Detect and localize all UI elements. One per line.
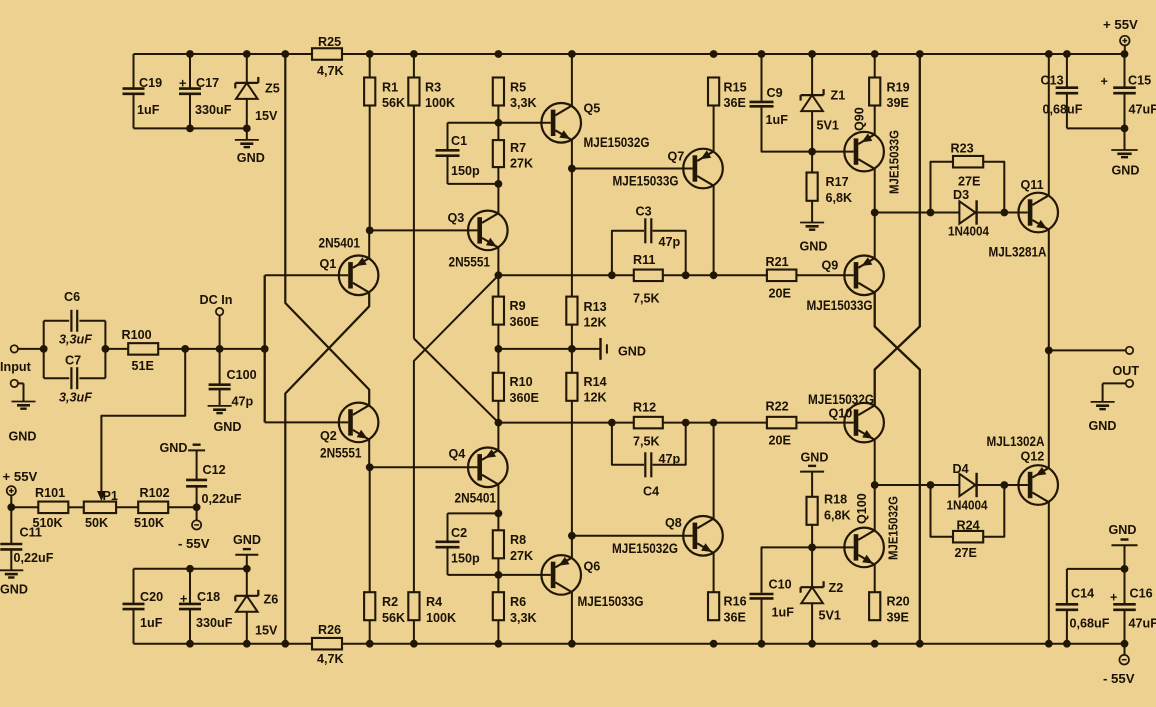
svg-text:Z6: Z6 — [264, 593, 279, 607]
wire C2 top branch — [448, 512, 499, 514]
svg-text:C10: C10 — [769, 578, 792, 592]
resistor R20 — [874, 565, 876, 592]
transistor Q4 2N5401 — [468, 448, 508, 488]
svg-text:27E: 27E — [955, 546, 977, 560]
transistor Q8 MJE15032G — [683, 516, 723, 556]
terminal -55V pot supply — [196, 507, 198, 520]
resistor R22 — [767, 417, 797, 429]
wire Q3 emitter down — [497, 248, 499, 276]
node top rail / C15 — [1121, 50, 1129, 58]
resistor R11 — [634, 270, 663, 282]
svg-text:1N4004: 1N4004 — [947, 498, 989, 513]
svg-text:GND: GND — [237, 151, 265, 165]
capacitor C13 — [1066, 54, 1068, 87]
node C4 right — [682, 419, 690, 427]
wire Q7 base — [572, 168, 693, 170]
svg-text:C100: C100 — [227, 368, 257, 382]
capacitor C10 — [761, 600, 763, 644]
svg-text:2N5551: 2N5551 — [320, 446, 362, 461]
capacitor C15 — [1124, 54, 1126, 87]
svg-text:Z2: Z2 — [829, 581, 844, 595]
node D4 line left — [871, 481, 879, 489]
svg-text:100K: 100K — [426, 611, 456, 625]
svg-text:R7: R7 — [510, 141, 526, 155]
svg-text:R11: R11 — [633, 253, 655, 267]
svg-text:R9: R9 — [510, 299, 526, 313]
svg-text:MJE15033G: MJE15033G — [578, 594, 644, 609]
transistor Q12 MJL1302A — [1018, 465, 1058, 505]
svg-text:C16: C16 — [1130, 587, 1153, 601]
node R23 right — [1000, 209, 1008, 217]
svg-text:MJL3281A: MJL3281A — [989, 245, 1047, 260]
svg-text:+ 55V: + 55V — [1103, 17, 1138, 32]
svg-text:R8: R8 — [510, 533, 526, 547]
svg-text:12K: 12K — [584, 316, 607, 330]
node C16 ground — [1121, 565, 1129, 573]
wire Q8 base — [572, 535, 693, 537]
node bottom rail / C10 — [758, 640, 766, 648]
svg-text:GND: GND — [618, 345, 646, 359]
svg-text:20E: 20E — [769, 434, 791, 448]
capacitor C11 — [10, 507, 12, 543]
wire C2 bottom branch — [448, 574, 499, 576]
ground mid reference — [599, 338, 601, 360]
svg-text:51E: 51E — [132, 359, 154, 373]
svg-text:C6: C6 — [64, 290, 80, 304]
svg-text:50K: 50K — [85, 516, 108, 530]
terminal -55V main — [1124, 644, 1126, 655]
svg-text:R22: R22 — [766, 400, 789, 414]
svg-text:1uF: 1uF — [140, 616, 163, 630]
svg-text:GND: GND — [160, 441, 188, 455]
wire Q8 collector up — [713, 423, 715, 519]
ground below C100 — [208, 405, 232, 407]
wire base Q1 — [265, 274, 349, 276]
svg-text:20E: 20E — [769, 287, 791, 301]
svg-text:27E: 27E — [958, 175, 980, 189]
svg-text:47p: 47p — [232, 395, 254, 409]
svg-text:150p: 150p — [451, 552, 480, 566]
svg-text:R17: R17 — [826, 175, 849, 189]
svg-text:Q9: Q9 — [822, 259, 839, 273]
diode D3 1N4004 — [959, 201, 975, 223]
wire R102 to -55V node — [168, 506, 196, 508]
wire R101-P1 — [68, 506, 84, 508]
diode D4 1N4004 — [959, 474, 975, 496]
svg-text:R4: R4 — [426, 595, 442, 609]
svg-text:Q6: Q6 — [584, 560, 601, 574]
transistor Q7 MJE15033G — [683, 149, 723, 189]
svg-text:Z5: Z5 — [265, 82, 280, 96]
svg-text:360E: 360E — [510, 315, 539, 329]
wire R11 to R21 — [663, 274, 767, 276]
resistor R24 loop — [931, 485, 954, 537]
wire Q9 collector crossover to rail — [875, 293, 920, 644]
node bottom rail / Q12 emitter — [1045, 640, 1053, 648]
resistor R3 — [413, 54, 415, 78]
capacitor C7 — [44, 377, 69, 379]
svg-text:39E: 39E — [887, 611, 909, 625]
resistor R26 — [312, 638, 342, 650]
svg-text:150p: 150p — [451, 164, 480, 178]
node top rail / Q11 collector — [1045, 50, 1053, 58]
svg-text:R12: R12 — [633, 401, 656, 415]
transistor Q5 MJE15032G — [541, 103, 581, 143]
wire Q10 emitter down — [874, 440, 876, 485]
resistor R4 — [408, 592, 419, 620]
resistor R18 — [811, 472, 813, 497]
svg-text:D3: D3 — [953, 188, 969, 202]
node R5/C1/Q5 base — [495, 119, 503, 127]
wire Q1 collector to bottom rail crossover — [285, 293, 369, 644]
svg-text:3,3K: 3,3K — [510, 611, 537, 625]
transistor Q10 MJE15032G — [844, 403, 884, 443]
svg-text:- 55V: - 55V — [1103, 671, 1135, 686]
terminal OUT return — [1126, 380, 1133, 387]
svg-text:+: + — [179, 77, 186, 91]
wire Q3 emitter diagonal to R4 — [414, 275, 499, 592]
resistor R9 — [497, 275, 499, 296]
wire P1-R102 — [116, 506, 138, 508]
node top rail / R5 — [495, 50, 503, 58]
svg-text:47p: 47p — [659, 452, 681, 466]
node R23 left — [927, 209, 935, 217]
node Z1/R17/Q90 base — [808, 148, 816, 156]
svg-text:R5: R5 — [510, 81, 526, 95]
node top rail / Z1 — [808, 50, 816, 58]
resistor R12 — [634, 417, 663, 429]
svg-text:27K: 27K — [510, 157, 533, 171]
svg-text:330uF: 330uF — [195, 103, 232, 117]
node R8/C2/Q6 base — [495, 571, 503, 579]
svg-text:MJE15032G: MJE15032G — [612, 541, 678, 556]
svg-text:R14: R14 — [584, 375, 607, 389]
resistor R16 — [713, 553, 715, 592]
svg-text:Q7: Q7 — [668, 150, 685, 164]
capacitor C2 — [447, 513, 449, 540]
svg-text:36E: 36E — [724, 611, 746, 625]
svg-text:Q2: Q2 — [320, 429, 337, 443]
wire Q100 collector up — [874, 485, 876, 530]
node top rail / Z5 — [243, 50, 251, 58]
node top rail / C17 — [186, 50, 194, 58]
wire mid ground link — [498, 348, 572, 350]
svg-text:OUT: OUT — [1113, 364, 1140, 378]
node DC In — [216, 345, 224, 353]
node +55V pot — [7, 503, 15, 511]
capacitor C17 — [189, 54, 191, 88]
resistor R19 — [869, 78, 880, 106]
zener Z1 — [811, 54, 813, 95]
wire D3 line — [875, 212, 960, 214]
svg-text:3,3uF: 3,3uF — [59, 333, 92, 347]
resistor R15 — [708, 78, 719, 106]
wire Q11 emitter to OUT — [1048, 230, 1050, 351]
svg-text:47uF: 47uF — [1129, 617, 1156, 631]
wire Q6 emitter to rail — [571, 592, 573, 644]
wire upper VAS rail — [498, 274, 633, 276]
wire Q5 collector to rail — [571, 54, 573, 106]
capacitor C20 — [133, 569, 135, 604]
resistor R6 — [497, 575, 499, 592]
node feedback tap — [181, 345, 189, 353]
svg-text:47p: 47p — [659, 235, 681, 249]
resistor R10 — [493, 373, 504, 401]
node Q3 emitter — [495, 271, 503, 279]
node top rail / Q5 collector — [568, 50, 576, 58]
wire Q90 collector down — [874, 169, 876, 213]
wire Q11 collector to rail — [1048, 54, 1050, 195]
svg-text:27K: 27K — [510, 549, 533, 563]
wire top rail crossover to Q10 collector — [875, 54, 920, 405]
svg-text:510K: 510K — [134, 516, 164, 530]
svg-text:+ 55V: + 55V — [3, 469, 38, 484]
wire feedback tap to pot wiper — [101, 349, 185, 494]
svg-text:R10: R10 — [510, 375, 533, 389]
node top rail / Q10 crossover — [916, 50, 924, 58]
svg-text:MJE15032G: MJE15032G — [808, 392, 874, 407]
capacitor C18 — [189, 569, 191, 604]
svg-text:R102: R102 — [140, 486, 170, 500]
wire OUT — [1049, 349, 1126, 351]
node C3 right — [682, 271, 690, 279]
resistor R102 — [138, 502, 168, 514]
capacitor C3 — [612, 231, 644, 275]
node Q7 base tap — [568, 165, 576, 173]
svg-text:2N5401: 2N5401 — [455, 491, 497, 506]
node D3 line left — [871, 209, 879, 217]
node bottom rail / R6 — [495, 640, 503, 648]
svg-text:GND: GND — [800, 240, 828, 254]
svg-text:MJE15033G: MJE15033G — [613, 174, 679, 189]
resistor R7 — [497, 123, 499, 140]
svg-text:D4: D4 — [953, 462, 969, 476]
node top rail / R15 — [710, 50, 718, 58]
resistor R2 — [369, 467, 371, 592]
node Q7 collector — [710, 271, 718, 279]
terminal DC In — [216, 308, 223, 315]
node bottom rail / Q1 crossover — [281, 640, 289, 648]
wire C1 top branch — [448, 122, 499, 124]
node Q8 collector — [710, 419, 718, 427]
resistor R23 loop — [931, 162, 954, 213]
svg-text:C7: C7 — [65, 354, 81, 368]
svg-text:DC In: DC In — [200, 293, 233, 307]
wire Q2 emitter to Q4 base — [370, 466, 478, 468]
wire Q90 base — [812, 151, 854, 153]
svg-text:R26: R26 — [318, 623, 341, 637]
wire top block bottom — [134, 127, 247, 129]
svg-text:R18: R18 — [824, 493, 847, 507]
wire Q4 collector up — [497, 423, 499, 451]
node top rail / C9 — [758, 50, 766, 58]
node input right — [102, 345, 110, 353]
node C15 ground — [1121, 124, 1129, 132]
svg-text:R6: R6 — [510, 595, 526, 609]
svg-text:GND: GND — [0, 583, 28, 597]
svg-text:360E: 360E — [510, 391, 539, 405]
transistor Q1 2N5401 — [339, 255, 379, 295]
svg-text:56K: 56K — [382, 96, 405, 110]
node bottom rail / C16 — [1121, 640, 1129, 648]
ground below Z5 — [246, 128, 248, 140]
zener Z6 — [246, 569, 248, 596]
wire D4 to Q12 base — [978, 484, 1028, 486]
svg-text:MJL1302A: MJL1302A — [987, 434, 1045, 449]
svg-text:6,8K: 6,8K — [826, 191, 853, 205]
svg-text:0,22uF: 0,22uF — [202, 492, 242, 506]
node R13/R14 mid — [568, 345, 576, 353]
wire R19 top — [874, 54, 876, 78]
svg-text:5V1: 5V1 — [819, 609, 841, 623]
wire Q1 emitter to Q3 base — [370, 229, 478, 231]
node Q4 collector — [495, 419, 503, 427]
svg-text:+: + — [180, 592, 187, 606]
resistor R100 — [128, 343, 158, 355]
node top rail / R1 — [366, 50, 374, 58]
svg-text:GND: GND — [1112, 164, 1140, 178]
svg-text:C11: C11 — [20, 526, 42, 540]
svg-text:MJE15032G: MJE15032G — [584, 135, 650, 150]
node Q4 emitter / R8 / C2 — [495, 510, 503, 518]
svg-text:C9: C9 — [767, 86, 783, 100]
transistor Q2 2N5551 — [339, 403, 379, 443]
svg-text:R16: R16 — [724, 595, 747, 609]
capacitor C12 — [186, 479, 207, 482]
capacitor C16 — [1124, 569, 1126, 604]
node OUT — [1045, 347, 1053, 355]
svg-text:R23: R23 — [951, 142, 974, 156]
node -55V pot — [193, 503, 201, 511]
wire Q5 emitter down column — [571, 140, 573, 169]
svg-text:Z1: Z1 — [831, 89, 846, 103]
zener Z2 — [811, 547, 813, 587]
wire Q100 base — [812, 546, 854, 548]
svg-text:Q90: Q90 — [853, 107, 867, 131]
svg-text:GND: GND — [233, 533, 261, 547]
node bottom rail / Z2 — [808, 640, 816, 648]
node bottom rail / Q9 crossover — [916, 640, 924, 648]
svg-text:36E: 36E — [724, 96, 746, 110]
node bottom rail / C18 — [186, 640, 194, 648]
svg-text:3,3uF: 3,3uF — [59, 391, 92, 405]
transistor Q90 MJE15033G — [844, 132, 884, 172]
wire D3 to Q11 base — [978, 212, 1028, 214]
svg-text:MJE15032G: MJE15032G — [887, 496, 901, 560]
zener Z5 — [246, 54, 248, 83]
node C4 left — [608, 419, 616, 427]
svg-text:15V: 15V — [255, 624, 278, 638]
transistor Q9 MJE15033G — [844, 255, 884, 295]
svg-text:- 55V: - 55V — [178, 536, 210, 551]
svg-text:GND: GND — [801, 451, 829, 465]
node bottom rail / Q6 emitter — [568, 640, 576, 648]
terminal OUT — [1126, 347, 1133, 354]
svg-text:GND: GND — [1109, 523, 1137, 537]
svg-text:Q10: Q10 — [829, 407, 853, 421]
svg-text:+: + — [1101, 75, 1108, 89]
capacitor C19 — [133, 54, 135, 88]
capacitor C9 — [761, 54, 763, 101]
wire R21 to Q9 base — [796, 274, 853, 276]
capacitor C100 — [219, 349, 221, 384]
svg-text:1N4004: 1N4004 — [948, 224, 990, 239]
svg-text:R101: R101 — [35, 486, 65, 500]
wire Q1 emitter up — [368, 230, 370, 258]
node bottom rail / C14 — [1063, 640, 1071, 648]
svg-text:2N5401: 2N5401 — [319, 236, 361, 251]
svg-text:6,8K: 6,8K — [824, 509, 851, 523]
ground at OUT — [1102, 383, 1104, 402]
transistor Q11 MJL3281A — [1018, 193, 1058, 233]
wire R12 to R22 — [663, 422, 767, 424]
svg-text:R2: R2 — [382, 595, 398, 609]
svg-text:1uF: 1uF — [772, 606, 795, 620]
resistor R101 — [38, 502, 68, 514]
wiper arrow P1 — [97, 491, 106, 501]
potentiometer P1 body — [84, 502, 116, 514]
wire R100 to DC-in node — [158, 348, 265, 350]
svg-text:C15: C15 — [1128, 74, 1151, 88]
capacitor C6 — [44, 320, 69, 322]
svg-text:C17: C17 — [196, 76, 219, 90]
svg-text:5V1: 5V1 — [817, 119, 839, 133]
wire to R101 — [11, 506, 38, 508]
svg-text:47uF: 47uF — [1129, 103, 1156, 117]
svg-text:0,68uF: 0,68uF — [1070, 617, 1110, 631]
node bottom rail / R4 — [410, 640, 418, 648]
resistor R8 — [497, 513, 499, 530]
svg-text:R25: R25 — [318, 35, 341, 49]
wire -55V bottom rail right segment — [342, 643, 1125, 645]
wire C1 bottom branch — [448, 183, 499, 185]
wire input node to bases vertical — [264, 275, 266, 422]
transistor Q100 MJE15032G — [844, 528, 884, 568]
ground at input — [23, 383, 25, 401]
svg-text:C13: C13 — [1041, 74, 1064, 88]
svg-text:Input: Input — [0, 360, 32, 374]
svg-text:Q100: Q100 — [855, 493, 869, 524]
svg-text:Q11: Q11 — [1021, 178, 1044, 192]
capacitor C1 — [447, 123, 449, 149]
svg-text:R13: R13 — [584, 300, 607, 314]
node bottom rail / R2 — [366, 640, 374, 648]
svg-text:Q5: Q5 — [584, 102, 601, 116]
node bottom rail / Z6 — [243, 640, 251, 648]
svg-text:C4: C4 — [643, 485, 659, 499]
resistor R1 — [369, 54, 371, 78]
ground below C11 — [0, 569, 23, 571]
ground below R17 — [800, 222, 824, 224]
node R24 right — [1000, 481, 1008, 489]
node top rail / C13 — [1063, 50, 1071, 58]
svg-text:15V: 15V — [255, 109, 278, 123]
node bottom rail / R16 — [710, 640, 718, 648]
svg-text:R3: R3 — [425, 81, 441, 95]
capacitor C14 — [1066, 569, 1068, 604]
node top rail / R3 — [410, 50, 418, 58]
svg-text:0,68uF: 0,68uF — [1043, 103, 1083, 117]
svg-text:C1: C1 — [451, 134, 467, 148]
node R7/C1/Q3 collector — [495, 180, 503, 188]
terminal Input signal — [11, 345, 18, 352]
node Z2/R18/Q100 base — [808, 544, 816, 552]
svg-text:4,7K: 4,7K — [317, 652, 344, 666]
svg-text:R20: R20 — [887, 595, 910, 609]
wire to mid ground symbol — [572, 348, 601, 350]
wire Q12 collector to OUT — [1048, 350, 1050, 467]
wire base Q2 — [265, 421, 349, 423]
